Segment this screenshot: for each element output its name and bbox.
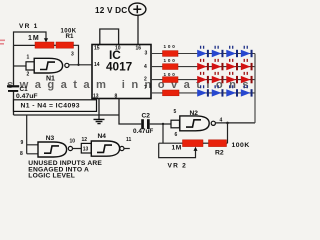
svg-text:3: 3 — [71, 52, 74, 58]
svg-text:1: 1 — [27, 54, 30, 60]
svg-text:100: 100 — [164, 58, 177, 63]
svg-text:11: 11 — [126, 137, 132, 143]
resistor row3 100 — [163, 77, 179, 83]
wire rail to VR1 — [14, 44, 36, 46]
svg-text:4: 4 — [144, 64, 147, 70]
svg-text:1M: 1M — [172, 144, 182, 151]
svg-text:15: 15 — [94, 45, 100, 51]
svg-text:N4: N4 — [98, 133, 107, 140]
wire supply to pin16 — [137, 15, 139, 45]
node input N2 down — [162, 124, 164, 143]
wire N3 to N4 — [73, 148, 82, 150]
svg-text:R2: R2 — [215, 150, 224, 157]
resistor R1 body — [56, 42, 74, 48]
ground — [94, 119, 105, 123]
svg-text:5: 5 — [174, 109, 177, 115]
wire rail to N1 inputs — [14, 65, 27, 67]
capacitor C2 — [141, 119, 144, 129]
svg-text:R1: R1 — [66, 33, 74, 40]
svg-text:0.47uF: 0.47uF — [16, 93, 38, 100]
svg-text:14: 14 — [94, 62, 100, 68]
wire VR1 to R1 — [54, 44, 56, 46]
svg-text:12 V DC: 12 V DC — [95, 6, 127, 15]
svg-text:12: 12 — [82, 137, 88, 143]
wire reset bracket pin15-pin10 — [100, 29, 119, 45]
wire C2 to N2 inputs — [150, 123, 171, 125]
svg-text:VR 2: VR 2 — [168, 163, 187, 170]
wire N1 output to pin14 — [69, 64, 92, 66]
op-amp gate N1 — [34, 58, 62, 73]
LED chain D9-D12 row3 (red) — [197, 72, 252, 83]
potentiometer VR1 wiper loop — [14, 32, 47, 45]
N1 input stub — [26, 62, 34, 70]
potentiometer VR1 body — [35, 42, 54, 48]
resistor row2 100 — [163, 64, 179, 70]
junction node N2 output — [226, 122, 229, 125]
note box N1-N4 — [14, 100, 97, 112]
wire VR2 row left — [159, 142, 183, 144]
capacitor C1 — [7, 85, 19, 87]
svg-text:8: 8 — [115, 93, 118, 99]
wire VR2 to R2 — [203, 142, 209, 144]
svg-text:9: 9 — [21, 140, 24, 146]
svg-text:N1 - N4 = IC4093: N1 - N4 = IC4093 — [21, 102, 80, 109]
svg-text:3: 3 — [145, 51, 148, 57]
wire pin8 to C2 — [119, 99, 141, 125]
LED return bus — [254, 54, 256, 123]
IC U1 4017 — [92, 45, 151, 99]
LED chain D13-D16 row4 (blue) — [197, 85, 252, 96]
junction node N1 output/R1 — [77, 64, 79, 66]
svg-text:8: 8 — [20, 151, 23, 157]
N4 input box pin13 — [81, 143, 91, 153]
svg-text:C2: C2 — [142, 113, 151, 120]
supply terminal + — [129, 3, 146, 15]
svg-text:VR 1: VR 1 — [19, 23, 38, 30]
N3/N4 spare gates wiring — [27, 115, 38, 154]
N2 input stub — [171, 120, 180, 128]
wire N4 output pin11 — [124, 148, 130, 150]
op-amp gate N3 — [38, 142, 67, 157]
resistor R2 body — [209, 140, 227, 147]
svg-text:6: 6 — [175, 132, 178, 138]
watermark fragment left edge — [0, 40, 5, 42]
svg-text:4017: 4017 — [106, 60, 133, 74]
left rail wire — [13, 45, 15, 115]
svg-text:0.47uF: 0.47uF — [133, 128, 153, 135]
svg-text:13: 13 — [93, 93, 99, 99]
svg-text:13: 13 — [83, 147, 89, 153]
svg-text:LOGIC LEVEL: LOGIC LEVEL — [28, 173, 75, 180]
svg-text:1M: 1M — [28, 35, 40, 42]
svg-text:16: 16 — [136, 45, 142, 51]
potentiometer VR2 body — [183, 140, 204, 147]
LED row wires + right bus — [151, 54, 255, 93]
svg-text:100: 100 — [164, 44, 177, 49]
wire pin13 down — [98, 99, 100, 120]
op-amp gate N2 — [180, 116, 209, 131]
LED chain D5-D8 row2 (red) — [197, 59, 252, 70]
wire N2 output to LED bus — [215, 122, 255, 124]
svg-text:2: 2 — [27, 71, 30, 77]
wire junction down to R2 — [227, 123, 228, 143]
LED chain D1-D4 row1 (blue) — [197, 46, 252, 57]
resistor row1 100 — [163, 51, 179, 57]
ground rail — [14, 114, 120, 116]
op-amp gate N4 — [91, 141, 119, 156]
resistor row4 100 — [163, 90, 180, 96]
svg-text:100: 100 — [164, 72, 177, 77]
wire R1 feedback to N1 output — [74, 45, 79, 65]
junction node C2/N2 input — [162, 123, 164, 125]
svg-text:100K: 100K — [232, 142, 250, 149]
svg-text:N3: N3 — [46, 135, 55, 142]
potentiometer VR2 wiper loop — [159, 143, 196, 157]
svg-text:10: 10 — [70, 138, 76, 144]
